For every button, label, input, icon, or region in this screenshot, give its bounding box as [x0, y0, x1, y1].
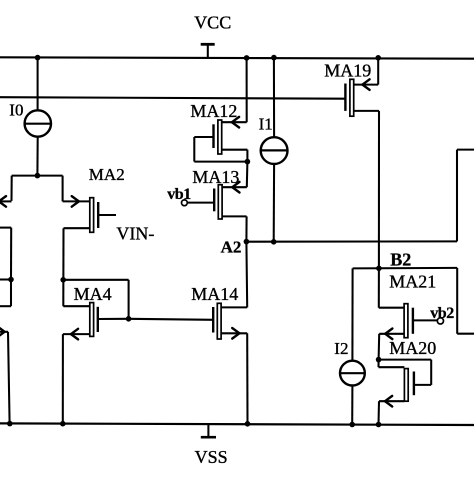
wire MA12 source lead — [222, 121, 247, 123]
wire MA1 drain down — [10, 228, 12, 280]
wire MA12 gate lead — [194, 136, 213, 138]
node junction B2 — [376, 266, 382, 272]
svg-text:MA19: MA19 — [324, 60, 371, 80]
wire MA21 drain lead — [379, 307, 404, 309]
transistor MA4 source arrow — [71, 329, 78, 340]
transistor MA4 channel bar — [90, 303, 94, 337]
svg-text:VIN-: VIN- — [116, 223, 154, 243]
svg-text:MA14: MA14 — [191, 284, 238, 304]
current source I0 — [25, 110, 51, 136]
terminal vb2 — [437, 318, 443, 324]
node junction gate rail — [126, 316, 132, 322]
transistor MA4 gate bar — [97, 307, 99, 332]
wire MA12 gate loop bottom — [194, 161, 247, 163]
transistor MA12 channel bar — [218, 120, 222, 154]
wire MA21 source down — [378, 334, 381, 360]
wire MA19 drain down — [378, 111, 380, 268]
svg-text:MA21: MA21 — [389, 272, 436, 292]
wire MA2 source lead — [63, 200, 90, 202]
current source I1 — [261, 137, 288, 164]
node junction MA3 source VSS — [7, 421, 13, 427]
transistor MA21 channel bar — [404, 304, 408, 338]
terminal vb1 — [182, 200, 188, 206]
wire MA3 drain lead — [0, 305, 11, 307]
wire MA4 source lead — [63, 333, 90, 335]
svg-text:VCC: VCC — [194, 13, 231, 33]
wire VSS rail — [0, 423, 474, 425]
wire gate rail to MA14 — [129, 319, 214, 320]
wire tail right down — [62, 176, 64, 202]
wire MA20 drain lead — [379, 366, 405, 368]
wire B2 line — [353, 267, 458, 270]
wire MA12 drain lead — [222, 149, 248, 151]
wire MA2 drain lead — [64, 227, 90, 229]
svg-text:MA2: MA2 — [89, 165, 125, 184]
wire MA13 drain lead — [222, 215, 247, 217]
wire MA2 gate lead — [98, 214, 116, 216]
wire MA13 source lead — [222, 186, 247, 188]
transistor MA2 channel bar — [90, 198, 94, 233]
current source I2 — [340, 361, 365, 386]
wire MA13 source up — [246, 162, 249, 188]
transistor MA2 gate bar — [97, 202, 99, 228]
wire tail horizontal — [12, 175, 63, 177]
transistor MA20 source arrow — [385, 396, 392, 407]
svg-text:VSS: VSS — [195, 447, 228, 467]
wire A2 line — [246, 240, 457, 242]
transistor MA21 source arrow — [385, 329, 392, 340]
node junction MA12 on VCC rail — [244, 55, 250, 61]
wire MA20 gate loop top — [379, 359, 432, 361]
wire MA14 drain up — [245, 242, 248, 308]
node junction I1-A2 — [271, 239, 277, 245]
wire B2 stub right — [457, 333, 474, 335]
wire I1 top — [273, 58, 275, 138]
wire MA3 source down — [8, 332, 10, 424]
node junction MA1/MA3 — [8, 277, 14, 283]
wire I0 bottom — [36, 137, 38, 176]
wire MA19 source down — [377, 58, 379, 85]
node tail junction — [35, 173, 41, 179]
transistor MA12 gate bar — [212, 124, 214, 148]
node junction I2 VSS — [349, 422, 355, 428]
svg-text:I0: I0 — [9, 101, 23, 120]
wire A2 stub right — [457, 149, 474, 151]
wire MA13 drain down — [245, 216, 247, 241]
wire MA20 drain down — [377, 360, 379, 368]
wire MA20 source down — [377, 401, 380, 424]
wire A2 right up — [456, 150, 458, 242]
wire MA14 source down — [246, 333, 248, 424]
svg-text:MA4: MA4 — [74, 284, 112, 304]
wire MA2 drain down — [62, 228, 64, 306]
transistor MA19 gate bar — [344, 84, 346, 111]
node junction MA20 gate node — [376, 357, 382, 363]
wire MA19 drain lead — [354, 110, 379, 112]
transistor MA19 source arrow — [362, 79, 369, 90]
node junction I0 on VCC rail — [35, 55, 41, 61]
node junction MA14 source VSS — [245, 421, 251, 427]
wire mirror down — [128, 280, 130, 319]
transistor MA20 gate bar — [413, 372, 415, 396]
svg-text:MA13: MA13 — [192, 167, 239, 187]
svg-text:I1: I1 — [259, 115, 273, 134]
wire MA3 source lead — [0, 331, 8, 333]
node junction MA12 drain — [245, 159, 251, 165]
wire MA20 gate lead — [414, 384, 431, 386]
transistor MA14 channel bar — [217, 303, 221, 339]
wire MA21 source lead — [379, 333, 404, 335]
transistor MA2 source arrow — [72, 196, 79, 207]
svg-text:MA12: MA12 — [190, 101, 237, 121]
svg-text:A2: A2 — [221, 238, 242, 257]
wire MA4 gate lead — [98, 318, 129, 320]
wire MA13 gate lead — [187, 202, 214, 204]
transistor MA21 gate bar — [412, 308, 414, 334]
wire MA3 gate stub — [0, 278, 11, 280]
wire MA12 gate loop down — [193, 137, 195, 162]
transistor MA13 gate bar — [213, 189, 215, 212]
wire MA12 drain down — [246, 150, 248, 162]
transistor MA20 channel bar — [404, 369, 408, 402]
wire MA1 drain lead — [0, 227, 11, 229]
node junction I1 on VCC rail — [271, 55, 277, 61]
wire I1 bottom — [273, 164, 275, 242]
wire MA19 source lead — [354, 84, 379, 86]
wire MA1 source lead — [0, 200, 12, 202]
svg-text:vb1: vb1 — [167, 186, 191, 203]
wire MA14 drain lead — [221, 306, 247, 308]
wire mirror rail — [63, 279, 128, 281]
wire MA12 source up — [246, 58, 248, 122]
transistor MA14 gate bar — [212, 307, 214, 333]
wire MA3 drain up — [10, 280, 12, 307]
wire MA4 drain lead — [63, 305, 90, 307]
transistor MA3 source arrow (clipped) — [0, 327, 5, 338]
wire I2 bottom — [351, 386, 353, 425]
node junction MA20 source VSS — [376, 422, 382, 428]
node junction MA4 source VSS — [60, 421, 66, 427]
node junction MA19 on VCC rail — [375, 55, 381, 61]
wire MA14 source lead — [221, 332, 247, 334]
node junction A2 — [244, 239, 250, 245]
wire MA21 gate lead — [413, 319, 437, 321]
wire MA20 gate loop right — [430, 360, 432, 385]
transistor MA14 source arrow — [232, 328, 239, 339]
svg-text:MA20: MA20 — [389, 338, 436, 358]
transistor MA19 channel bar — [350, 79, 354, 116]
wire MA20 source lead — [379, 400, 404, 402]
wire I2 top — [351, 268, 353, 360]
wire VCC rail — [0, 57, 474, 58]
transistor MA13 source arrow — [232, 182, 239, 193]
wire VIN+ line to MA19 gate — [0, 97, 345, 99]
wire I0 top — [37, 58, 39, 111]
wire MA21 drain down — [378, 268, 380, 307]
wire B2 right down — [456, 268, 458, 334]
svg-text:vb2: vb2 — [430, 305, 454, 322]
wire MA4 source down — [62, 334, 64, 424]
ground VSS symbol — [207, 424, 209, 437]
node junction MA2 drain — [60, 277, 66, 283]
svg-text:B2: B2 — [390, 250, 411, 270]
transistor MA12 source arrow — [232, 117, 239, 128]
wire tail left down — [10, 176, 12, 201]
svg-text:I2: I2 — [334, 339, 348, 358]
power VCC symbol — [201, 43, 215, 46]
transistor MA13 channel bar — [218, 185, 222, 219]
transistor MA1 source arrow (clipped) — [0, 196, 6, 207]
